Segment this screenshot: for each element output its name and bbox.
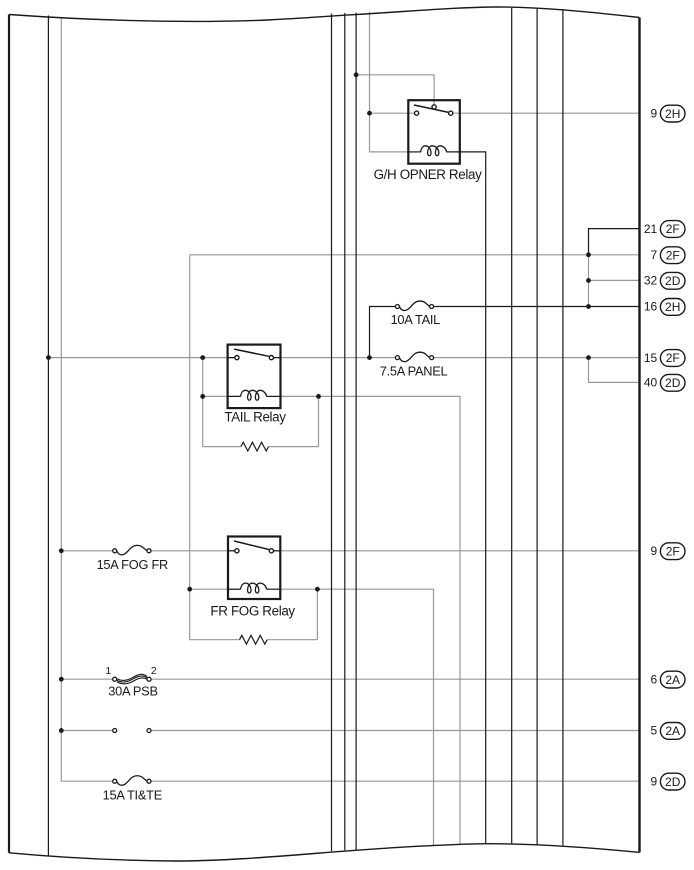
wire 40 2D branch <box>589 358 640 383</box>
wire G/H relay right pin to terminal 9 2H <box>453 112 640 114</box>
wire 15 2F row left of TAIL relay <box>48 357 234 359</box>
wire FR FOG relay left pin stub <box>228 550 235 552</box>
node TAIL lower circuit top junction <box>200 355 205 360</box>
bus line vertical 3 <box>344 13 346 850</box>
relay TAIL box <box>228 345 281 409</box>
svg-text:9: 9 <box>651 106 658 120</box>
svg-text:15: 15 <box>644 351 658 365</box>
node FR FOG coil right junction <box>315 587 320 592</box>
node G/H top feed junction <box>354 72 359 77</box>
svg-text:2F: 2F <box>666 248 680 262</box>
resistor TAIL relay suppression <box>241 442 269 451</box>
wire FR FOG resistor row right <box>267 639 317 641</box>
bus line vertical 2 <box>331 14 333 852</box>
node 32 2D junction <box>586 278 591 283</box>
svg-text:30A PSB: 30A PSB <box>108 684 157 699</box>
svg-text:10A TAIL: 10A TAIL <box>391 312 441 327</box>
connector 5 2A right contact <box>147 729 151 733</box>
node 16 2H junction <box>586 304 591 309</box>
wire 9 2F row bus to fuse <box>61 550 113 552</box>
terminal label 16 2H <box>644 299 685 316</box>
wire 7 2F long horizontal <box>190 254 640 256</box>
wire TAIL relay lower circuit left vertical <box>202 358 204 447</box>
svg-text:9: 9 <box>651 774 658 788</box>
wire TAIL coil right stub <box>266 395 280 397</box>
connector 5 2A left contact <box>113 729 117 733</box>
junction block outline right edge <box>638 18 640 853</box>
wire 32 2D stub <box>589 279 640 281</box>
wire TAIL relay coil row right to drop wire <box>281 396 461 845</box>
wire 9 2D row right <box>151 780 640 782</box>
node 10A TAIL drop junction <box>367 355 372 360</box>
svg-text:FR FOG Relay: FR FOG Relay <box>210 603 295 618</box>
wire FR FOG lower circuit left vertical from 7 2F <box>189 255 191 640</box>
resistor FR FOG relay suppression <box>240 635 268 644</box>
svg-text:1: 1 <box>105 665 111 677</box>
wire 6 2A row right <box>151 678 640 680</box>
wire FR FOG lower circuit right vertical <box>316 589 318 640</box>
wire TAIL lower circuit right vertical <box>318 396 320 446</box>
relay FR FOG box <box>228 537 280 600</box>
bus line vertical 4 <box>355 13 357 850</box>
node 6 2A row left junction <box>59 677 64 682</box>
junction block outline left edge <box>8 15 10 853</box>
wire bus drop to G/H coil left <box>370 12 410 152</box>
svg-text:2: 2 <box>151 665 157 677</box>
wire FR FOG relay right pin stub <box>274 550 281 552</box>
svg-text:15A FOG FR: 15A FOG FR <box>97 557 168 572</box>
wire G/H relay left pin from bus <box>370 112 415 114</box>
relay G/H OPNER left contact <box>415 111 419 115</box>
node 5 2A row left junction <box>59 728 64 733</box>
relay FR FOG left contact <box>235 549 239 553</box>
wire FR FOG coil right stub <box>266 588 280 590</box>
node 15 2F terminal branch junction <box>586 355 591 360</box>
terminal label 15 2F <box>644 350 685 367</box>
relay FR FOG switch blade <box>234 541 269 550</box>
terminal label 9 2H <box>651 105 685 122</box>
relay G/H OPNER top contact <box>432 105 436 109</box>
svg-text:21: 21 <box>644 222 658 236</box>
relay TAIL coil <box>241 390 267 400</box>
wire TAIL resistor row <box>203 446 241 448</box>
svg-text:6: 6 <box>651 672 658 686</box>
fuse 10A TAIL <box>395 301 433 310</box>
junction block outline top edge <box>9 7 640 21</box>
wire 16 2H to terminal <box>434 306 640 308</box>
wire TAIL resistor row right <box>269 446 319 448</box>
svg-text:5: 5 <box>651 724 658 738</box>
wire 15 2F row TAIL relay to 7.5A fuse <box>274 357 396 359</box>
svg-text:2A: 2A <box>665 724 680 738</box>
svg-text:7.5A PANEL: 7.5A PANEL <box>380 363 448 378</box>
wire TAIL relay left pin stub <box>228 357 235 359</box>
wire left gray bus vertical <box>61 17 113 781</box>
relay G/H OPNER right contact <box>449 111 453 115</box>
node 15 2F row left junction <box>46 355 51 360</box>
bus line vertical 7 <box>562 9 564 845</box>
relay FR FOG right contact <box>269 549 273 553</box>
bus line vertical 5 <box>511 8 513 844</box>
fuse 15A TI&TE <box>113 776 151 785</box>
junction block outline bottom edge <box>9 844 640 861</box>
wire 21 2F branch black <box>589 229 640 255</box>
svg-text:15A TI&TE: 15A TI&TE <box>103 787 162 802</box>
wire 15 2F row fuse to terminal <box>434 357 640 359</box>
terminal label 9 2D <box>651 773 685 790</box>
wire 10A TAIL fuse row and 16 2H <box>370 307 396 358</box>
fuse 15A FOG FR <box>113 545 151 554</box>
wire 5 2A row right <box>151 730 640 732</box>
wire 9 2F row fuse to FR FOG relay <box>151 550 235 552</box>
relay TAIL left contact <box>235 356 239 360</box>
bus line vertical 6 <box>536 8 538 844</box>
terminal label 32 2D <box>644 272 685 289</box>
node FR FOG coil left junction <box>187 587 192 592</box>
svg-text:TAIL Relay: TAIL Relay <box>224 410 286 425</box>
svg-text:2D: 2D <box>665 376 681 390</box>
wire TAIL relay coil row left <box>203 395 241 397</box>
svg-text:2D: 2D <box>665 274 681 288</box>
svg-text:32: 32 <box>644 274 658 288</box>
svg-text:2H: 2H <box>665 300 680 314</box>
wire 5 2A row left <box>61 730 113 732</box>
wire G/H coil right to drop bus <box>446 152 486 844</box>
wire FR FOG resistor row <box>190 639 240 641</box>
relay TAIL right contact <box>269 356 273 360</box>
terminal label 6 2A <box>651 671 685 688</box>
relay TAIL switch blade <box>234 349 269 356</box>
svg-text:9: 9 <box>651 544 658 558</box>
svg-text:G/H OPNER Relay: G/H OPNER Relay <box>374 167 483 182</box>
node 9 2F row left junction <box>59 548 64 553</box>
terminal label 7 2F <box>651 247 685 264</box>
wire node stub 588 vertical upper gray <box>588 255 590 307</box>
wire FR FOG coil left stub <box>228 588 241 590</box>
fuse 7.5A PANEL <box>395 352 433 361</box>
terminal label 40 2D <box>644 374 685 391</box>
svg-text:2F: 2F <box>666 544 680 558</box>
node TAIL coil right junction <box>316 394 321 399</box>
relay G/H OPNER box <box>408 100 460 164</box>
relay FR FOG coil <box>241 583 267 593</box>
wire FR FOG coil row left <box>190 588 241 590</box>
svg-text:40: 40 <box>644 376 658 390</box>
svg-text:2D: 2D <box>665 775 681 789</box>
svg-text:16: 16 <box>644 300 658 314</box>
wire TAIL relay right pin stub <box>274 357 281 359</box>
wire G/H coil left stub inside box <box>408 151 421 153</box>
svg-text:7: 7 <box>651 248 658 262</box>
svg-text:2F: 2F <box>666 222 680 236</box>
svg-text:2H: 2H <box>665 107 680 121</box>
node TAIL coil left junction <box>200 394 205 399</box>
wire TAIL coil left stub <box>228 395 241 397</box>
relay G/H OPNER coil <box>421 146 447 156</box>
terminal label 5 2A <box>651 723 685 740</box>
terminal label 9 2F <box>651 543 685 560</box>
bus line vertical 1 <box>47 16 49 857</box>
wire FR FOG coil row right to drop wire <box>280 589 433 846</box>
svg-text:2F: 2F <box>666 351 680 365</box>
terminal label 21 2F <box>644 221 685 238</box>
node 7 2F junction <box>586 252 591 257</box>
svg-text:2A: 2A <box>665 673 680 687</box>
fusible link 30A PSB <box>113 674 151 683</box>
node G/H left pin junction <box>367 111 372 116</box>
wire 9 2F row relay to terminal <box>274 550 640 552</box>
relay G/H OPNER switch blade <box>414 105 449 112</box>
wire 6 2A row left <box>61 678 113 680</box>
wire G/H opener relay top feed horizontal <box>356 75 434 105</box>
